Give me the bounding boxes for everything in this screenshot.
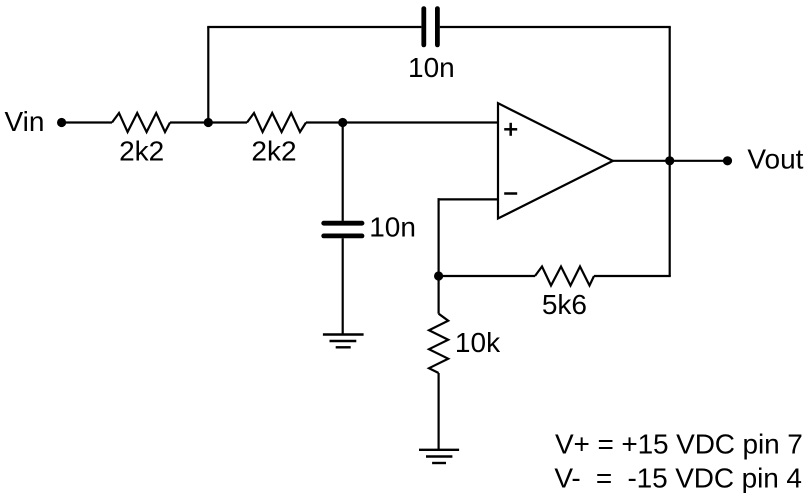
resistor R1 (112, 113, 170, 132)
wire node A up to top rail (207, 27, 209, 123)
label Vout (747, 143, 803, 174)
label 10k (455, 327, 501, 358)
label 2k2 (R1) (119, 136, 164, 167)
wire R2 to op-amp plus input (306, 121, 498, 123)
node C output junction dot (665, 156, 674, 165)
wire node D down to R4 (438, 276, 440, 314)
svg-text:10n: 10n (369, 212, 416, 243)
svg-text:Vin: Vin (5, 106, 45, 137)
svg-text:V- = -15 VDC pin 4: V- = -15 VDC pin 4 (554, 462, 801, 493)
op-amp minus pin symbol (504, 192, 517, 195)
resistor R4 10k (429, 314, 448, 373)
capacitor C1 10n (424, 9, 438, 45)
wire to op-amp minus input (438, 198, 499, 200)
op-amp U1 (498, 103, 613, 218)
svg-text:10k: 10k (455, 327, 501, 358)
label 10n (C2) (369, 212, 416, 243)
resistor R3 5k6 (535, 267, 594, 286)
wire node D up to minus input level (438, 198, 440, 276)
wire top rail down to output node (669, 27, 671, 161)
wire R3 to node D (439, 275, 535, 277)
label 5k6 (542, 289, 587, 320)
node B junction dot (338, 118, 347, 127)
wire top rail left segment (207, 26, 421, 28)
ground for C2 (323, 335, 364, 348)
resistor R2 (247, 113, 306, 132)
terminal dot Vout (723, 156, 732, 165)
svg-text:Vout: Vout (747, 143, 803, 174)
label 2k2 (R2) (251, 136, 296, 167)
wire R4 to ground (438, 373, 440, 450)
svg-text:V+ = +15 VDC pin 7: V+ = +15 VDC pin 7 (555, 428, 803, 459)
svg-text:10n: 10n (408, 52, 455, 83)
wire feedback corner to R3 (594, 275, 671, 277)
op-amp plus pin symbol (504, 123, 517, 136)
terminal dot Vin (57, 118, 66, 127)
wire op-amp output to Vout (613, 160, 728, 162)
svg-text:2k2: 2k2 (119, 136, 164, 167)
wire top rail right segment (440, 26, 671, 28)
svg-text:2k2: 2k2 (251, 136, 296, 167)
ground for R4 (419, 450, 459, 463)
wire node B down to C2 (342, 123, 344, 221)
wire node C down to feedback row (669, 161, 671, 276)
capacitor C2 10n (324, 223, 362, 236)
wire Vin to R1 (62, 121, 112, 123)
note supply voltages (554, 428, 802, 493)
svg-text:5k6: 5k6 (542, 289, 587, 320)
node A junction dot (204, 118, 213, 127)
label 10n (C1) (408, 52, 455, 83)
wire C2 to ground (342, 238, 344, 334)
label Vin (5, 106, 45, 137)
wire R1 to R2 (170, 121, 247, 123)
node D junction dot (434, 271, 443, 280)
